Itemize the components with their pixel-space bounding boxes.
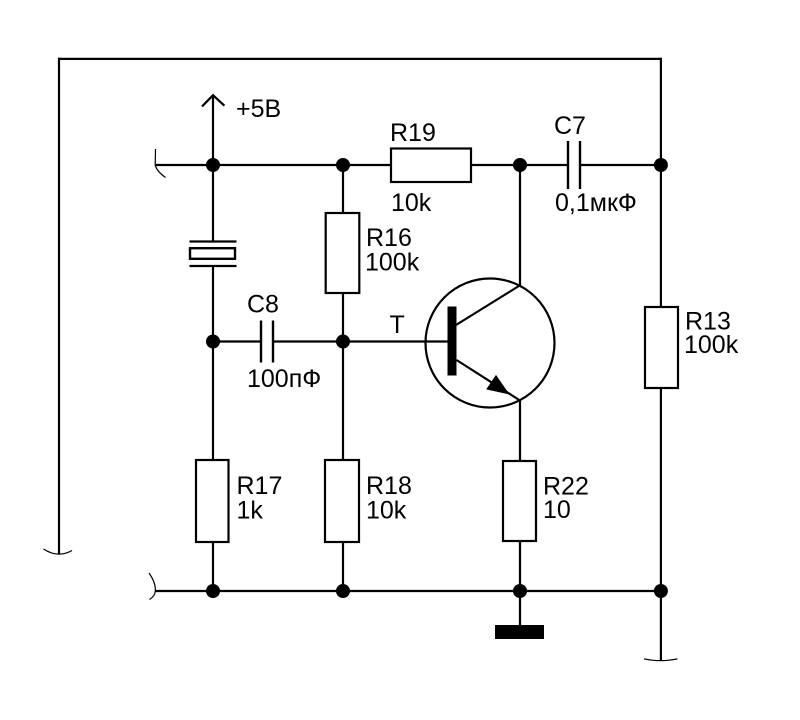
wire left frame xyxy=(58,58,60,554)
wire R16 top xyxy=(342,165,344,212)
resistor R13 xyxy=(645,307,678,388)
svg-text:10k: 10k xyxy=(391,189,432,217)
resistor R16 xyxy=(326,213,360,293)
+5V supply arrow xyxy=(202,95,224,165)
resistor R17 xyxy=(196,460,229,542)
base wire xyxy=(343,340,448,342)
wire R18 bottom xyxy=(342,543,344,591)
wire R22 bottom xyxy=(519,542,521,591)
left frame end arc xyxy=(44,549,73,554)
supply rail segment 3 xyxy=(580,164,661,166)
junction dot bottom right frame xyxy=(654,584,668,598)
wire R16 bottom xyxy=(342,293,344,342)
transistor T xyxy=(426,279,555,408)
svg-text:100пФ: 100пФ xyxy=(247,365,321,393)
wire right frame lower xyxy=(660,389,662,660)
resistor R19 xyxy=(391,149,471,183)
emitter wire xyxy=(519,400,521,461)
resistor R18 xyxy=(325,460,359,542)
ground stub xyxy=(519,591,521,625)
svg-text:100k: 100k xyxy=(365,249,420,277)
wire C8 left xyxy=(213,340,261,342)
junction dot supply/right frame xyxy=(654,158,668,172)
svg-text:R19: R19 xyxy=(390,119,436,147)
collector wire xyxy=(519,165,521,286)
capacitor C8 xyxy=(261,321,273,363)
wire R17 top xyxy=(212,342,214,461)
supply rail segment 2 xyxy=(472,164,568,166)
svg-text:10: 10 xyxy=(543,496,571,524)
ground xyxy=(495,625,544,639)
wire top frame xyxy=(58,58,661,60)
supply rail start hook xyxy=(155,149,165,178)
right line end tick xyxy=(644,659,678,661)
wire R17 bottom xyxy=(212,543,214,591)
svg-text:100k: 100k xyxy=(684,331,739,359)
wire right frame upper xyxy=(660,58,662,306)
svg-text:T: T xyxy=(390,311,405,339)
supply rail segment 1 xyxy=(155,164,390,166)
svg-text:C8: C8 xyxy=(247,291,279,319)
junction dot C8 left xyxy=(206,335,220,349)
junction dot supply/R16 xyxy=(336,158,350,172)
quartz crystal xyxy=(190,242,237,267)
svg-text:+5В: +5В xyxy=(236,95,281,123)
resistor R22 xyxy=(503,461,536,541)
wire crystal bottom xyxy=(212,266,214,342)
svg-text:C7: C7 xyxy=(554,112,586,140)
junction dot bottom R18 xyxy=(336,584,350,598)
svg-text:0,1мкФ: 0,1мкФ xyxy=(555,189,637,217)
svg-text:1k: 1k xyxy=(237,497,264,525)
junction dot bottom R22 xyxy=(513,584,527,598)
junction dot C8 right xyxy=(336,335,350,349)
wire crystal top xyxy=(212,165,214,241)
bottom rail start hook xyxy=(149,573,155,600)
junction dot bottom R17 xyxy=(206,584,220,598)
capacitor C7 xyxy=(568,141,580,189)
svg-text:10k: 10k xyxy=(366,497,407,525)
junction dot supply/collector xyxy=(513,158,527,172)
wire C8 right xyxy=(273,340,343,342)
bottom rail xyxy=(155,590,661,592)
junction dot supply/crystal xyxy=(206,158,220,172)
wire R18 top xyxy=(342,342,344,461)
